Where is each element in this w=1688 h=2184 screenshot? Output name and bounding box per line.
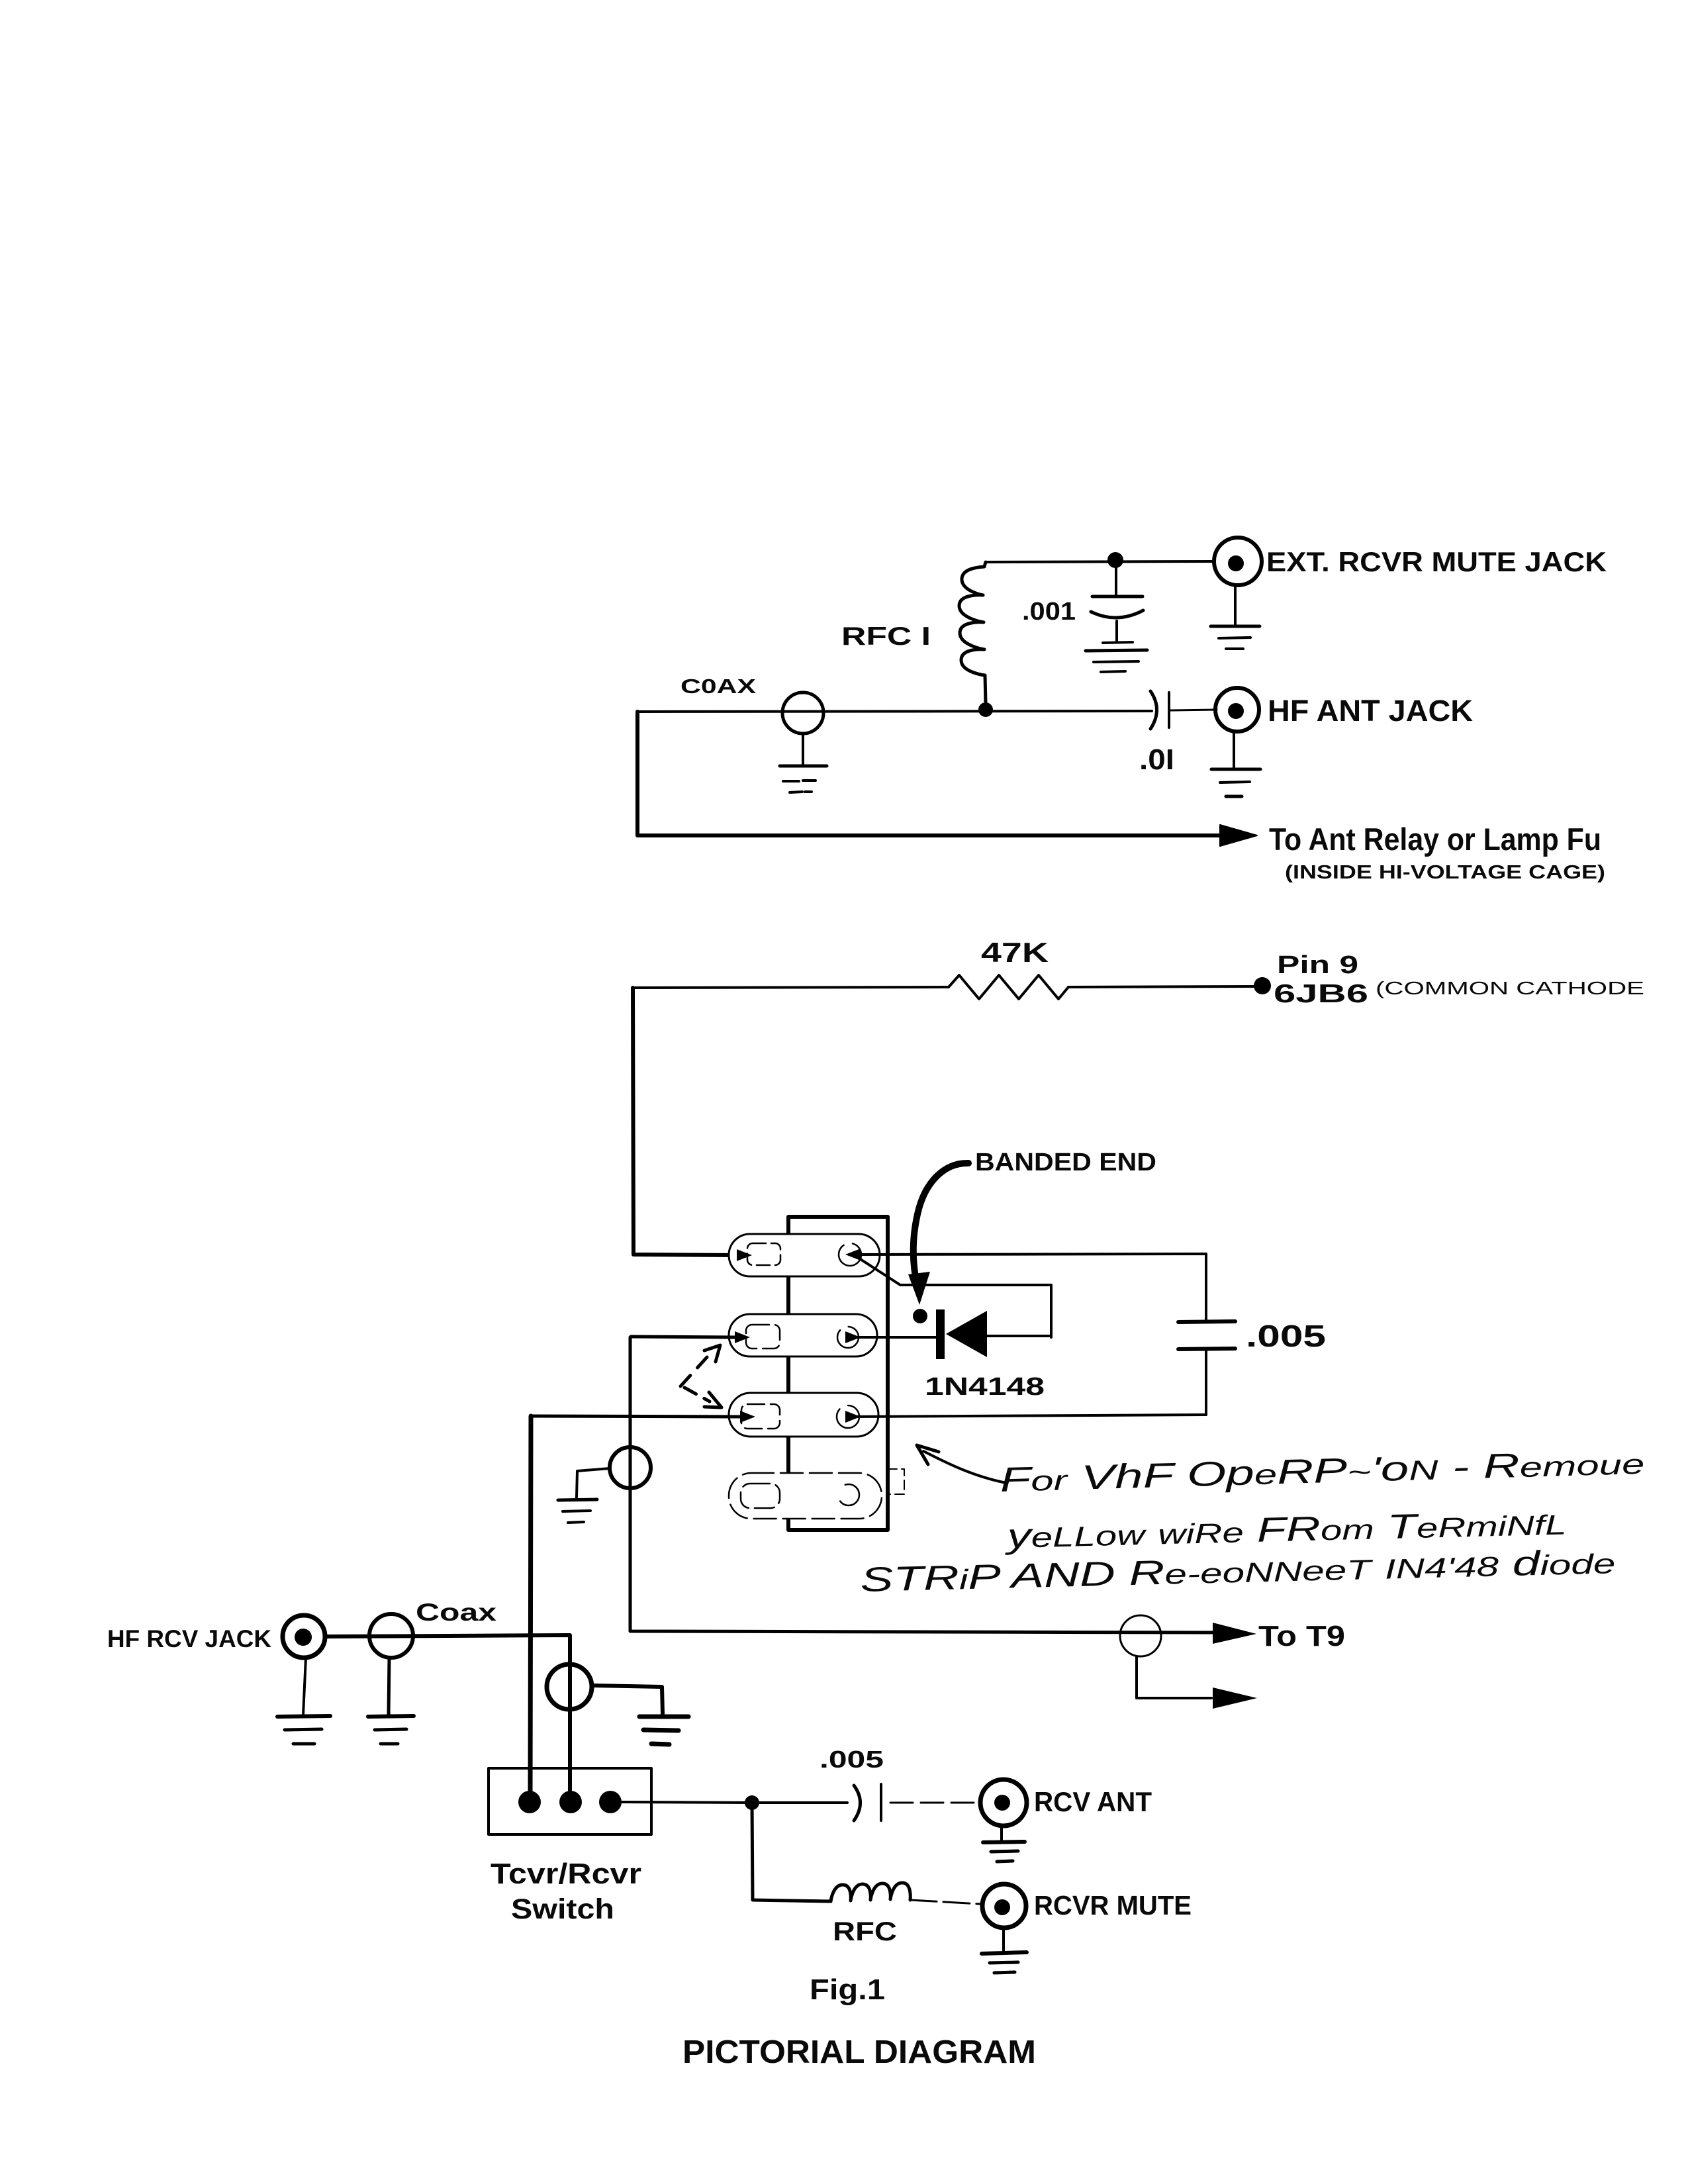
pointer arrow banded end <box>908 1163 968 1305</box>
dashed pointer arrow to lug2 <box>680 1345 720 1386</box>
terminal lug 1 <box>729 1234 880 1276</box>
svg-text:RCV ANT: RCV ANT <box>1034 1786 1152 1817</box>
svg-text:RFC I: RFC I <box>841 622 931 651</box>
shield branch arrow below To T9 <box>1137 1656 1257 1709</box>
svg-text:.0I: .0I <box>1139 743 1174 776</box>
svg-text:Tcvr/Rcvr: Tcvr/Rcvr <box>491 1858 641 1890</box>
ground tail of shield <box>558 1468 610 1523</box>
svg-text:.005: .005 <box>820 1746 884 1773</box>
connector EXT RCVR MUTE JACK <box>1214 538 1262 585</box>
svg-text:C0AX: C0AX <box>680 675 756 698</box>
wire switch to junction <box>622 1802 752 1803</box>
wire to ant relay with arrow <box>637 712 1257 846</box>
svg-text:EXT. RCVR MUTE JACK: EXT. RCVR MUTE JACK <box>1266 546 1607 577</box>
connector RCVR MUTE <box>982 1884 1026 1928</box>
dashed pointer arrow to lug3 <box>684 1388 722 1407</box>
wire lug3 down to switch <box>530 1416 531 1797</box>
diode 1N4148 <box>936 1309 1051 1359</box>
coax shield circle on To T9 wire <box>1120 1615 1161 1656</box>
node Pin 9 6JB6 <box>1254 977 1271 994</box>
banded end dot <box>913 1309 927 1323</box>
node junction main wire / RFC1 <box>978 702 993 717</box>
wire coax feed horizontal <box>637 710 1217 712</box>
arrow To T9 <box>1213 1623 1256 1644</box>
svg-text:(COMMON CATHODE: (COMMON CATHODE <box>1376 978 1644 998</box>
terminal lug 4 <box>729 1473 882 1519</box>
svg-text:HF RCV JACK: HF RCV JACK <box>107 1625 271 1652</box>
svg-text:PICTORIAL DIAGRAM: PICTORIAL DIAGRAM <box>682 2034 1036 2070</box>
capacitor .001 <box>1086 567 1147 672</box>
wire lug1 right to diode loop <box>845 1249 1051 1337</box>
coax shield circle on lug2 vertical <box>610 1447 651 1488</box>
capacitor .01 <box>1150 691 1169 729</box>
svg-text:.005: .005 <box>1246 1319 1326 1353</box>
svg-text:To Ant Relay or Lamp Fu: To Ant Relay or Lamp Fu <box>1269 822 1601 857</box>
svg-text:47K: 47K <box>981 937 1049 968</box>
connector RCV ANT <box>980 1780 1027 1826</box>
wire lug2 down to To T9 <box>630 1337 1221 1633</box>
switch box Tcvr Rcvr <box>489 1768 651 1834</box>
svg-text:Pin 9: Pin 9 <box>1277 951 1358 979</box>
wire junction to RFC <box>752 1803 831 1901</box>
svg-text:HF ANT JACK: HF ANT JACK <box>1268 694 1474 728</box>
wire lug2 right to diode cathode <box>845 1331 939 1343</box>
connector HF RCV JACK <box>283 1615 325 1658</box>
svg-text:RCVR MUTE: RCVR MUTE <box>1034 1890 1192 1921</box>
coax shield at HF RCV <box>369 1614 413 1658</box>
inductor RFC1 <box>959 562 986 704</box>
svg-text:For VhF OpeRP~'oN - Remoue: For VhF OpeRP~'oN - Remoue <box>1000 1443 1645 1499</box>
svg-text:STRiP AND Re-eoNNeeT IN4'48 di: STRiP AND Re-eoNNeeT IN4'48 diode <box>860 1543 1616 1599</box>
node junction at .001 <box>1107 552 1123 568</box>
wire HF RCV JACK to switch <box>325 1635 570 1797</box>
ground at HF RCV JACK <box>277 1658 330 1744</box>
wire lug3 right to cap .005 <box>845 1411 1206 1423</box>
ground at EXT RCVR MUTE JACK <box>1211 585 1260 649</box>
svg-text:To T9: To T9 <box>1258 1620 1345 1652</box>
wire arrow into lug1 left <box>737 1249 752 1261</box>
svg-text:.001: .001 <box>1022 598 1076 626</box>
terminal strip body <box>788 1217 904 1530</box>
svg-text:Fig.1: Fig.1 <box>810 1973 885 2006</box>
wire RFC1 top to EXT jack <box>986 561 1213 562</box>
note pointer arrow to strip <box>917 1445 1006 1483</box>
svg-text:yeLLow wiRe FRom TeRmiNfL: yeLLow wiRe FRom TeRmiNfL <box>1004 1503 1567 1556</box>
inductor RFC <box>831 1883 910 1901</box>
switch contacts <box>518 1791 622 1813</box>
wire 47K to terminal lug1 <box>633 988 737 1255</box>
svg-text:Coax: Coax <box>416 1599 497 1626</box>
ground at RCVR MUTE <box>982 1928 1027 1973</box>
terminal lug 3 <box>729 1393 878 1437</box>
wire RFC to RCVR MUTE <box>910 1900 980 1904</box>
capacitor .005 upper <box>1178 1321 1235 1415</box>
svg-text:RFC: RFC <box>833 1917 897 1946</box>
coax shield circle at COAX <box>782 692 823 734</box>
coax shield on HF RCV line <box>547 1664 592 1709</box>
capacitor .005 lower <box>752 1784 980 1821</box>
ground tail of HF RCV shield <box>594 1685 688 1744</box>
ground at COAX shield <box>780 734 827 792</box>
ground at RCV ANT <box>983 1826 1025 1862</box>
wire lug3 left <box>531 1411 755 1423</box>
wire lug1 right to cap .005 <box>858 1254 1206 1320</box>
wire lug2 left <box>631 1331 750 1343</box>
svg-text:BANDED END: BANDED END <box>975 1149 1156 1176</box>
ground at Coax shield <box>368 1658 414 1744</box>
svg-text:Switch: Switch <box>511 1893 614 1925</box>
resistor 47K <box>633 975 1256 999</box>
node junction at switch output <box>745 1795 759 1810</box>
ground at HF ANT JACK <box>1211 732 1260 796</box>
svg-text:6JB6: 6JB6 <box>1274 980 1368 1008</box>
terminal lug 2 <box>729 1314 877 1356</box>
connector HF ANT JACK <box>1215 688 1259 732</box>
svg-text:1N4148: 1N4148 <box>925 1373 1045 1401</box>
svg-text:(INSIDE HI-VOLTAGE CAGE): (INSIDE HI-VOLTAGE CAGE) <box>1285 862 1605 883</box>
